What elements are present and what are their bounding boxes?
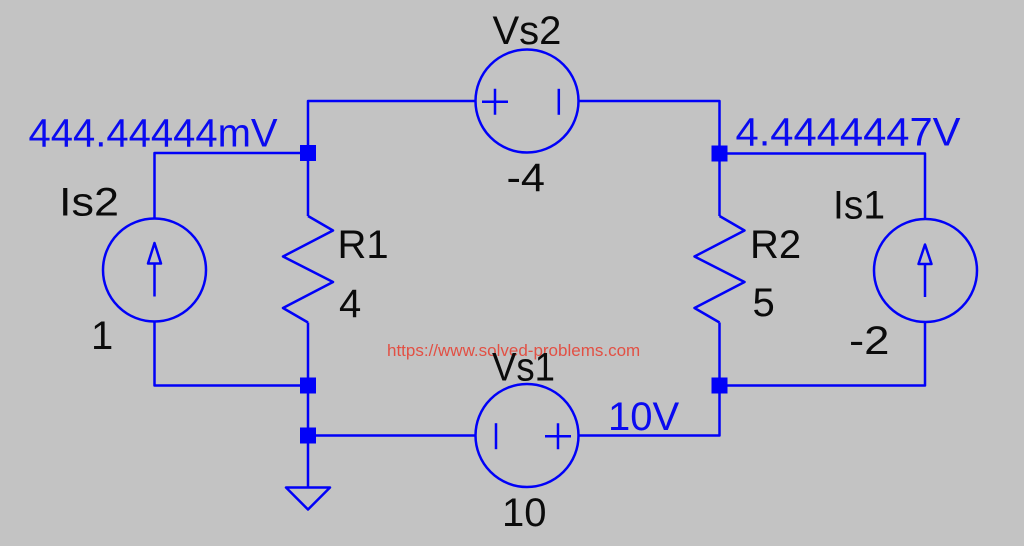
resistor R2 <box>695 216 745 323</box>
voltage source Vs1 <box>476 384 579 487</box>
wire <box>728 154 926 220</box>
svg-text:10V: 10V <box>608 395 679 439</box>
Is1 arrow <box>919 245 932 298</box>
node D <box>300 428 316 444</box>
svg-text:Is1: Is1 <box>833 184 885 228</box>
Vs2 plus terminal <box>482 89 508 115</box>
wire <box>718 323 721 378</box>
wire <box>307 444 310 488</box>
wire <box>728 322 926 386</box>
resistor R1 <box>283 216 333 323</box>
Vs2 minus terminal <box>558 89 561 115</box>
node A <box>300 145 316 161</box>
wire <box>316 434 476 437</box>
svg-text:10: 10 <box>502 491 547 535</box>
wire <box>307 161 310 216</box>
current source Is1 <box>874 219 977 322</box>
svg-text:R1: R1 <box>338 223 389 267</box>
Vs1 plus terminal <box>545 423 571 449</box>
svg-text:Vs1: Vs1 <box>492 346 555 390</box>
svg-text:-2: -2 <box>849 319 890 363</box>
wire <box>155 153 301 219</box>
Is2 arrow <box>148 243 161 297</box>
svg-text:444.44444mV: 444.44444mV <box>29 112 278 156</box>
wire <box>307 323 310 378</box>
svg-text:Is2: Is2 <box>59 181 119 225</box>
wire <box>579 394 720 436</box>
node B <box>712 146 728 162</box>
wire <box>579 101 720 146</box>
svg-text:4.4444447V: 4.4444447V <box>736 111 961 155</box>
svg-text:R2: R2 <box>750 223 801 267</box>
wire <box>155 321 301 386</box>
current source Is2 <box>103 219 206 322</box>
svg-text:5: 5 <box>753 281 775 325</box>
svg-text:Vs2: Vs2 <box>493 9 562 53</box>
wire <box>718 162 721 217</box>
voltage source Vs2 <box>476 50 579 153</box>
wire <box>308 101 476 145</box>
node E <box>712 378 728 394</box>
svg-text:4: 4 <box>339 282 361 326</box>
node C <box>300 378 316 394</box>
svg-text:-4: -4 <box>507 156 546 200</box>
Vs1 minus terminal <box>495 423 498 449</box>
svg-text:1: 1 <box>91 314 113 358</box>
wire <box>307 394 310 428</box>
ground <box>286 488 330 510</box>
